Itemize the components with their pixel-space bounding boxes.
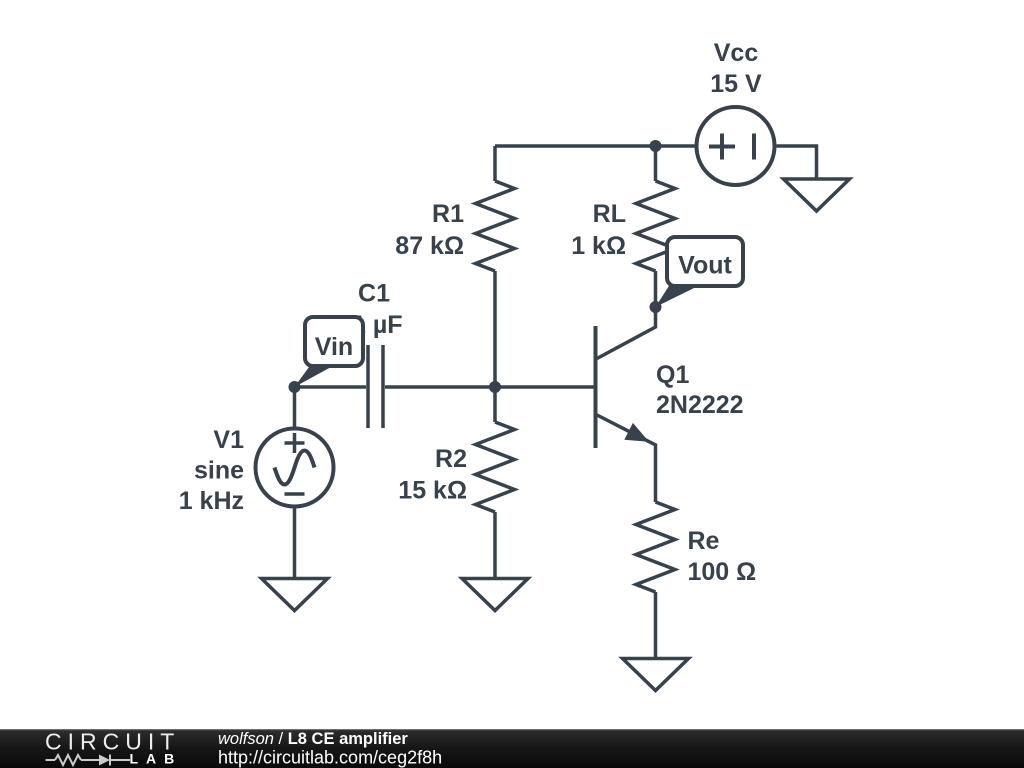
svg-text:C1: C1: [358, 280, 390, 308]
svg-text:100 Ω: 100 Ω: [688, 558, 757, 586]
node A junction dot top rail: [650, 140, 662, 152]
label R2 15 kΩ: [398, 445, 467, 505]
svg-text:V1: V1: [213, 426, 244, 454]
svg-text:http://circuitlab.com/ceg2f8h: http://circuitlab.com/ceg2f8h: [218, 748, 442, 768]
svg-text:R1: R1: [432, 200, 464, 228]
callout Vin: [295, 317, 364, 387]
svg-text:15 V: 15 V: [710, 70, 762, 98]
callout Vout: [656, 237, 744, 307]
svg-text:2N2222: 2N2222: [656, 391, 744, 419]
svg-text:Vcc: Vcc: [714, 39, 759, 67]
svg-text:Vin: Vin: [315, 333, 353, 361]
node base junction dot: [489, 381, 501, 393]
svg-text:15 kΩ: 15 kΩ: [398, 477, 467, 505]
svg-text:Q1: Q1: [656, 361, 689, 389]
label RL 1 kΩ: [571, 200, 626, 260]
ground (Vcc): [784, 179, 850, 211]
label Re 100 Ω: [688, 527, 757, 586]
svg-text:Re: Re: [688, 527, 720, 555]
wire base rail right (C1 to Q1 base): [385, 385, 597, 389]
wire Vin node to V1: [293, 387, 297, 427]
resistor R2: [476, 387, 515, 579]
svg-text:1 kHz: 1 kHz: [179, 487, 244, 515]
logo resistor-diode glyph: [46, 755, 131, 766]
label V1 sine 1 kHz: [179, 426, 244, 515]
transistor Q1: [596, 307, 656, 502]
resistor RL: [636, 146, 675, 307]
node Vout dot: [650, 301, 662, 313]
footer bar: [0, 729, 1024, 768]
svg-text:Vout: Vout: [678, 252, 732, 280]
label Vcc 15 V: [710, 39, 762, 98]
svg-text:wolfson / L8 CE amplifier: wolfson / L8 CE amplifier: [218, 730, 408, 748]
svg-text:LAB: LAB: [130, 751, 183, 767]
svg-text:87 kΩ: 87 kΩ: [395, 232, 464, 260]
voltage source V1: [256, 429, 334, 507]
svg-text:1 kΩ: 1 kΩ: [571, 232, 626, 260]
ground (Re): [623, 659, 689, 691]
voltage source Vcc: [697, 107, 775, 185]
wire Vcc to ground: [777, 146, 817, 179]
node Vin dot: [289, 381, 301, 393]
label R1 87 kΩ: [395, 200, 464, 260]
resistor Re: [636, 502, 675, 659]
svg-text:RL: RL: [593, 200, 626, 228]
svg-text:R2: R2: [435, 445, 467, 473]
svg-text:sine: sine: [194, 457, 244, 485]
capacitor C1: [368, 345, 383, 428]
resistor R1: [476, 146, 515, 387]
ground (V1): [262, 579, 328, 611]
label Q1 2N2222: [656, 361, 744, 419]
wire V1 to ground: [293, 509, 297, 579]
wire base rail left (Vin node to C1): [295, 385, 367, 389]
ground (R2): [462, 579, 528, 611]
wire top rail from R1 to Vcc: [495, 144, 696, 148]
